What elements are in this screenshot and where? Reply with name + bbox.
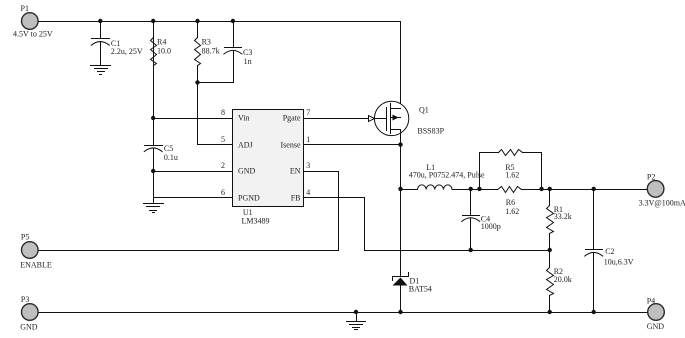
capacitor C5 xyxy=(144,146,162,152)
wire ENABLE from P5 xyxy=(39,250,339,252)
svg-text:GND: GND xyxy=(647,322,665,331)
wire output rail right xyxy=(522,189,648,191)
svg-text:R3: R3 xyxy=(202,38,211,47)
svg-text:7: 7 xyxy=(306,108,310,117)
wire FB pin 4 to divider xyxy=(305,198,550,251)
svg-text:C2: C2 xyxy=(605,247,614,256)
resistor R3 xyxy=(195,38,201,66)
transistor Q1 BSS83P xyxy=(374,101,408,135)
pin number 4 xyxy=(306,188,310,197)
resistor R5 bypass xyxy=(480,150,542,190)
svg-text:1n: 1n xyxy=(244,57,252,66)
svg-text:20.0k: 20.0k xyxy=(554,275,572,284)
svg-text:EN: EN xyxy=(290,167,301,176)
label R2 value xyxy=(554,267,572,284)
svg-text:1: 1 xyxy=(306,135,310,144)
pin number 7 xyxy=(306,108,310,117)
diode D1 BAT54 xyxy=(393,273,409,313)
wire Vin pin 8 xyxy=(154,118,233,120)
terminal P4 xyxy=(648,304,665,321)
label P3 GND xyxy=(20,295,38,331)
svg-text:6: 6 xyxy=(221,188,225,197)
capacitor C4 xyxy=(462,190,480,251)
svg-text:R4: R4 xyxy=(157,38,166,47)
capacitor C1 xyxy=(91,22,109,66)
label R6 value xyxy=(505,198,519,216)
svg-text:ENABLE: ENABLE xyxy=(20,260,52,269)
terminal P3 xyxy=(22,304,39,321)
svg-text:4: 4 xyxy=(306,188,310,197)
label D1 value xyxy=(409,277,432,294)
label Q1 value xyxy=(417,106,444,136)
svg-text:3: 3 xyxy=(306,161,310,170)
resistor R2 xyxy=(547,251,554,313)
junction R3 / C3 bottom xyxy=(195,80,199,84)
terminal P2 xyxy=(647,181,664,198)
wire output rail left xyxy=(453,189,498,191)
label U1 refdes xyxy=(242,208,270,225)
terminal P5 xyxy=(22,242,39,259)
junction Vin tap xyxy=(151,116,155,120)
svg-text:Pgate: Pgate xyxy=(283,114,301,123)
junction R5 right / output rail xyxy=(539,187,543,191)
svg-text:33.2k: 33.2k xyxy=(554,212,572,221)
junction C2 / output rail xyxy=(592,187,596,191)
svg-text:FB: FB xyxy=(291,193,301,202)
terminal P1 xyxy=(22,13,39,30)
svg-text:Isense: Isense xyxy=(281,140,301,149)
wire left column Vin feed (top rail to C5) xyxy=(153,22,155,146)
junction C2 / GND rail xyxy=(592,310,596,314)
junction R4 / top rail xyxy=(151,19,155,23)
label P5 ENABLE xyxy=(20,232,52,269)
label R5 value xyxy=(505,163,519,179)
resistor R4 xyxy=(151,38,157,66)
svg-text:10u,6.3V: 10u,6.3V xyxy=(604,258,634,267)
label C3 value xyxy=(243,48,252,66)
svg-text:1000p: 1000p xyxy=(481,222,501,231)
junction C1 / top rail xyxy=(98,19,102,23)
svg-text:LM3489: LM3489 xyxy=(242,217,270,226)
svg-text:10.0: 10.0 xyxy=(157,47,171,56)
IC U1 LM3489 xyxy=(233,110,304,207)
svg-text:Vin: Vin xyxy=(238,114,250,123)
ground on rail xyxy=(347,313,366,330)
pin number 6 xyxy=(221,188,225,197)
svg-text:3.3V@100mA: 3.3V@100mA xyxy=(639,198,685,207)
label P1 xyxy=(13,4,53,39)
svg-text:1.62: 1.62 xyxy=(505,207,519,216)
junction ground symbol / GND rail xyxy=(354,310,358,314)
junction R1-R2 / FB line xyxy=(548,248,552,252)
junction R3 / top rail xyxy=(195,19,199,23)
junction R1 / output rail xyxy=(548,187,552,191)
label R3 value xyxy=(202,38,220,56)
svg-text:Q1: Q1 xyxy=(419,106,429,115)
svg-text:0.1u: 0.1u xyxy=(164,153,178,162)
svg-text:BSS83P: BSS83P xyxy=(417,126,444,135)
junction R2 / GND rail xyxy=(548,310,552,314)
wire Pgate pin 7 to gate xyxy=(305,116,387,122)
wire R4 top lead xyxy=(153,22,155,38)
wire C3 bottom to R3 xyxy=(198,52,234,83)
ground at PGND xyxy=(144,198,164,213)
label C4 value xyxy=(481,215,501,232)
junction switch node / L1 xyxy=(398,187,402,191)
wire EN pin 3 to ENABLE xyxy=(305,172,339,251)
svg-text:P3: P3 xyxy=(21,295,29,304)
wire ground rail xyxy=(39,312,648,314)
resistor R6 xyxy=(498,187,522,193)
wire top rail (P1 to Q1 source) xyxy=(39,22,401,109)
svg-text:4.5V to 25V: 4.5V to 25V xyxy=(13,30,53,39)
svg-text:P1: P1 xyxy=(21,4,29,13)
svg-text:C5: C5 xyxy=(164,144,173,153)
pin number 5 xyxy=(221,135,225,144)
junction R5 left / output rail xyxy=(477,187,481,191)
svg-text:2: 2 xyxy=(221,161,225,170)
label C1 value xyxy=(111,39,143,56)
wire GND pin 2 xyxy=(154,171,233,173)
junction C3 / top rail xyxy=(231,19,235,23)
label R1 value xyxy=(554,205,572,221)
svg-text:C3: C3 xyxy=(243,48,252,57)
wire R3 column to ADJ pin 5 xyxy=(198,66,233,145)
svg-text:P2: P2 xyxy=(647,172,655,181)
svg-text:P4: P4 xyxy=(647,296,655,305)
inductor L1 xyxy=(401,185,453,190)
label C5 value xyxy=(164,144,178,162)
svg-text:ADJ: ADJ xyxy=(238,140,253,149)
label P4 GND xyxy=(647,296,665,331)
svg-text:PGND: PGND xyxy=(238,193,260,202)
label P2 output xyxy=(639,172,685,207)
junction Isense/drain xyxy=(398,142,402,146)
svg-text:2.2u, 25V: 2.2u, 25V xyxy=(111,47,143,56)
wire C5 to PGND corner xyxy=(154,149,233,198)
capacitor C3 xyxy=(224,22,242,55)
svg-text:8: 8 xyxy=(221,108,225,117)
junction GND tap xyxy=(151,169,155,173)
node Q1 drain column xyxy=(400,130,402,277)
pin number 8 xyxy=(221,108,225,117)
resistor R1 xyxy=(547,190,554,251)
svg-text:P5: P5 xyxy=(21,232,29,241)
pin number 1 xyxy=(306,135,310,144)
svg-text:5: 5 xyxy=(221,135,225,144)
ground under C1 xyxy=(91,66,111,75)
svg-text:GND: GND xyxy=(238,167,256,176)
junction C4 / output rail xyxy=(469,187,473,191)
svg-text:88.7k: 88.7k xyxy=(202,47,220,56)
junction D1 / GND rail xyxy=(398,310,402,314)
svg-text:BAT54: BAT54 xyxy=(409,285,432,294)
label L1 value xyxy=(409,163,485,180)
junction C4 / FB line xyxy=(469,248,473,252)
pin number 2 xyxy=(221,161,225,170)
pin number 3 xyxy=(306,161,310,170)
svg-text:470u, P0752.474, Pulse: 470u, P0752.474, Pulse xyxy=(409,171,485,180)
label U1 pin names xyxy=(238,114,301,203)
svg-text:1.62: 1.62 xyxy=(505,171,519,180)
svg-text:R6: R6 xyxy=(506,198,515,207)
wire R3 top lead xyxy=(197,22,199,38)
svg-text:GND: GND xyxy=(20,322,38,331)
wire Isense pin 1 to drain xyxy=(305,144,401,146)
capacitor C2 xyxy=(585,190,603,313)
label C2 value xyxy=(604,247,634,266)
label R4 value xyxy=(157,38,171,56)
